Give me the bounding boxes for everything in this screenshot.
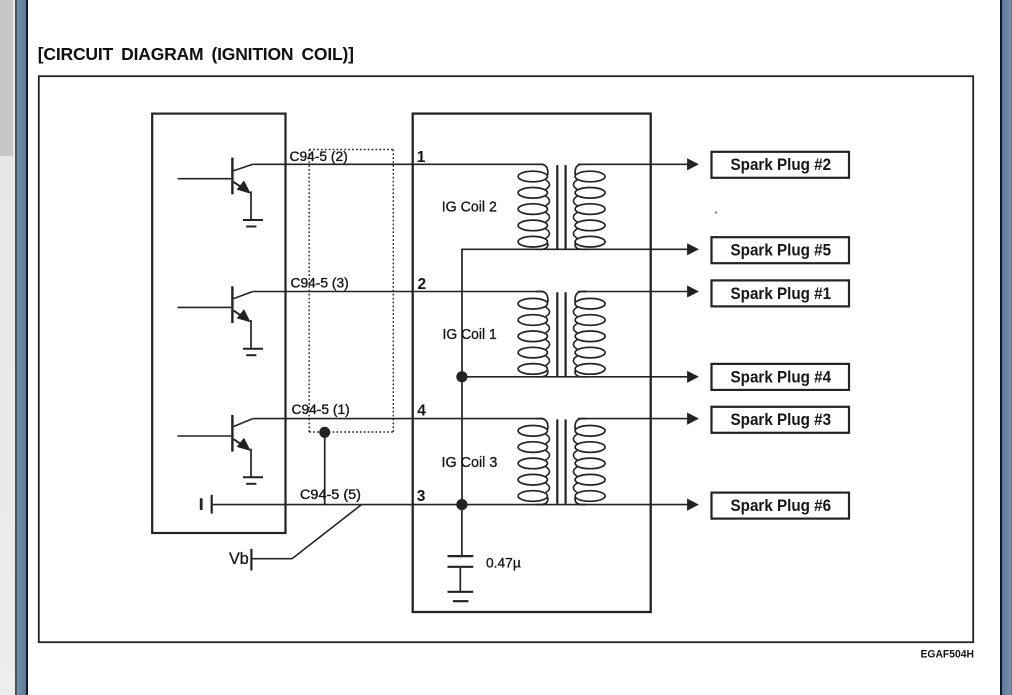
svg-text:EGAF504H: EGAF504H [921,648,975,660]
svg-text:Spark Plug #3: Spark Plug #3 [731,411,832,429]
svg-text:Spark Plug #2: Spark Plug #2 [731,156,832,174]
svg-text:3: 3 [417,488,426,505]
svg-text:IG Coil 1: IG Coil 1 [443,326,497,343]
svg-text:C94-5 (3): C94-5 (3) [291,275,349,290]
svg-text:4: 4 [417,403,426,420]
svg-text:1: 1 [417,149,426,166]
svg-text:Spark Plug #1: Spark Plug #1 [731,285,832,303]
svg-text:IG Coil 3: IG Coil 3 [442,454,498,471]
svg-text:Spark Plug #6: Spark Plug #6 [731,497,832,515]
svg-text:2: 2 [418,276,427,293]
svg-text:Spark Plug #5: Spark Plug #5 [731,242,832,260]
svg-text:C94-5 (2): C94-5 (2) [290,149,348,164]
svg-text:C94-5 (5): C94-5 (5) [300,487,361,502]
svg-text:Spark Plug #4: Spark Plug #4 [731,368,832,386]
svg-text:0.47µ: 0.47µ [486,555,521,570]
svg-text:C94-5 (1): C94-5 (1) [292,402,350,417]
svg-text:Vb: Vb [229,550,249,568]
svg-text:IG Coil 2: IG Coil 2 [442,199,497,216]
